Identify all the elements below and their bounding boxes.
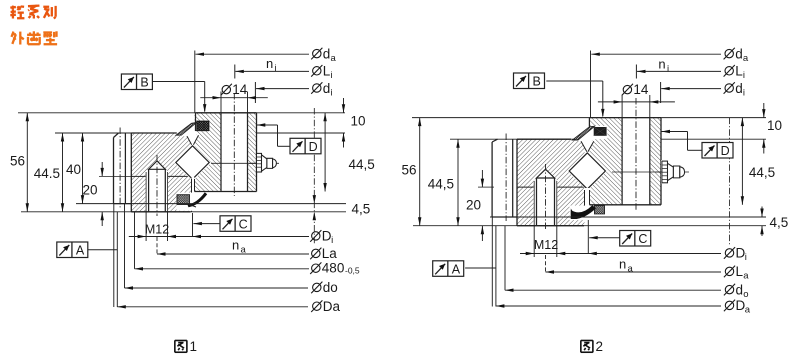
svg-text:44,5: 44,5: [349, 157, 375, 172]
svg-text:Da: Da: [323, 299, 341, 314]
svg-text:i: i: [667, 64, 669, 75]
svg-text:2: 2: [596, 339, 604, 354]
svg-text:M12: M12: [145, 223, 169, 237]
svg-text:C: C: [638, 232, 647, 246]
svg-text:20: 20: [466, 198, 481, 213]
svg-text:B: B: [140, 76, 148, 90]
svg-text:i: i: [743, 70, 745, 81]
svg-text:i: i: [331, 235, 333, 246]
svg-text:i: i: [331, 70, 333, 81]
svg-text:14: 14: [232, 82, 248, 97]
svg-text:do: do: [323, 280, 338, 295]
svg-text:a: a: [331, 53, 337, 64]
svg-text:20: 20: [82, 183, 97, 198]
svg-text:D: D: [309, 140, 318, 154]
svg-text:44,5: 44,5: [428, 177, 454, 192]
svg-text:d: d: [735, 46, 743, 61]
svg-text:44,5: 44,5: [749, 165, 775, 180]
svg-text:A: A: [76, 244, 85, 258]
svg-text:10: 10: [351, 114, 366, 129]
svg-text:1: 1: [190, 339, 198, 354]
svg-text:d: d: [736, 282, 744, 297]
svg-text:40: 40: [66, 162, 81, 177]
svg-text:i: i: [743, 87, 745, 98]
svg-text:i: i: [275, 63, 277, 74]
svg-text:n: n: [619, 257, 626, 272]
svg-text:-0,5: -0,5: [345, 266, 360, 276]
svg-text:i: i: [331, 87, 333, 98]
svg-text:56: 56: [401, 163, 416, 178]
svg-text:a: a: [743, 53, 749, 64]
svg-text:a: a: [743, 271, 749, 282]
svg-text:B: B: [533, 75, 541, 89]
svg-text:n: n: [266, 56, 273, 71]
svg-text:4,5: 4,5: [770, 215, 789, 230]
svg-text:4,5: 4,5: [352, 202, 371, 217]
svg-text:A: A: [452, 262, 461, 276]
svg-text:La: La: [322, 246, 338, 261]
svg-text:D: D: [721, 144, 730, 158]
svg-text:n: n: [658, 57, 665, 72]
svg-text:56: 56: [10, 154, 25, 169]
svg-text:n: n: [232, 238, 239, 253]
svg-text:10: 10: [767, 118, 782, 133]
svg-text:C: C: [239, 217, 248, 231]
svg-text:d: d: [323, 81, 331, 96]
svg-text:d: d: [735, 81, 743, 96]
svg-text:480: 480: [322, 260, 345, 275]
svg-text:i: i: [745, 252, 747, 263]
svg-text:a: a: [745, 305, 751, 316]
svg-text:a: a: [628, 264, 634, 275]
svg-text:M12: M12: [534, 238, 558, 252]
svg-text:44.5: 44.5: [34, 166, 60, 181]
svg-text:14: 14: [633, 82, 649, 97]
svg-text:d: d: [323, 46, 331, 61]
